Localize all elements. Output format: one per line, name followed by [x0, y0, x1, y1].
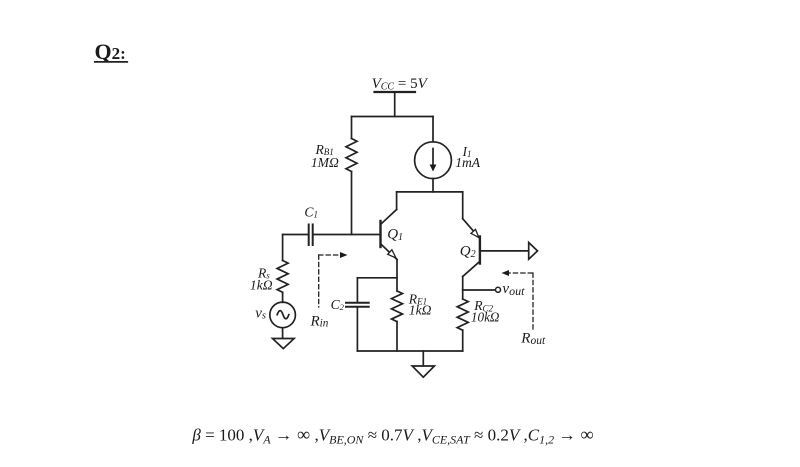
- label vout: [502, 281, 525, 298]
- label 1mA: [455, 155, 481, 170]
- svg-text:10kΩ: 10kΩ: [471, 310, 500, 325]
- svg-text:1MΩ: 1MΩ: [311, 155, 339, 170]
- wire top horizontal: [352, 116, 434, 118]
- wire ground stub: [422, 351, 424, 366]
- wire base Q1 left: [283, 234, 308, 236]
- svg-text:vout: vout: [502, 281, 525, 298]
- resistor Rs: [277, 261, 288, 293]
- wire Q1 emitter down: [396, 260, 398, 292]
- label vs: [255, 305, 266, 321]
- heading Q2:: [95, 39, 126, 64]
- svg-text:1kΩ: 1kΩ: [409, 303, 432, 318]
- label Rs: [257, 265, 270, 280]
- port triangle: [529, 243, 538, 260]
- Rout dashed arrow: [506, 273, 533, 329]
- wire RB1 top: [351, 117, 353, 139]
- svg-text:C2: C2: [331, 297, 345, 312]
- formula line: [191, 425, 593, 447]
- label 1MΩ: [311, 155, 339, 170]
- svg-text:β = 100 ,VA → ∞ ,VBE,ON ≈ 0.7V: β = 100 ,VA → ∞ ,VBE,ON ≈ 0.7V ,VCE,SAT …: [191, 425, 593, 447]
- svg-text:Rout: Rout: [520, 330, 546, 347]
- label C2: [331, 297, 345, 312]
- svg-text:1mA: 1mA: [455, 155, 481, 170]
- wire VCC bar down: [394, 92, 396, 117]
- wire RC2 bottom: [462, 330, 464, 351]
- label RB1: [314, 142, 333, 157]
- label Rout: [520, 330, 546, 347]
- resistor RC2: [457, 299, 468, 330]
- label RC2: [473, 298, 493, 313]
- svg-text:Q2: Q2: [460, 244, 476, 261]
- label 1kΩ (RE1): [409, 303, 432, 318]
- wire RB1 bottom: [351, 172, 353, 235]
- wire Rs to vs: [282, 292, 284, 302]
- transistor Q1: [381, 192, 398, 260]
- wire C2 bottom: [356, 307, 358, 351]
- heading underline: [95, 61, 127, 63]
- ground (vs): [273, 339, 295, 349]
- wire RE1 bottom: [396, 322, 398, 352]
- svg-text:VCC = 5V: VCC = 5V: [372, 76, 429, 93]
- wire I1 top: [432, 117, 434, 142]
- label 10kΩ: [471, 310, 500, 325]
- label Q1: [387, 227, 403, 244]
- svg-text:vs: vs: [255, 305, 266, 321]
- wire I1 bottom: [432, 179, 434, 192]
- wire vout: [463, 289, 495, 291]
- VCC supply bar: [375, 91, 416, 93]
- wire bottom rail: [357, 350, 462, 352]
- svg-text:Rin: Rin: [310, 313, 329, 329]
- ground (bottom): [412, 366, 434, 377]
- source vs: [270, 302, 296, 328]
- current source I1: [415, 142, 452, 179]
- label RE1: [408, 291, 427, 306]
- wire vs to ground: [282, 328, 284, 338]
- capacitor C1: [309, 225, 313, 246]
- svg-text:1kΩ: 1kΩ: [250, 277, 273, 292]
- wire inner rail: [397, 191, 463, 193]
- wire Q2 base: [480, 250, 529, 252]
- wire C2 top: [356, 278, 358, 302]
- svg-text:Q2:: Q2:: [95, 39, 126, 64]
- wire Rs top: [282, 235, 284, 261]
- label 1kΩ (Rs): [250, 277, 273, 292]
- label VCC = 5V: [372, 76, 429, 93]
- label Q2: [460, 244, 476, 261]
- label C1: [304, 205, 318, 220]
- label Rin: [310, 313, 329, 329]
- svg-text:Q1: Q1: [387, 227, 403, 244]
- label I1: [462, 144, 472, 159]
- resistor RE1: [392, 291, 403, 322]
- capacitor C2: [346, 303, 369, 307]
- wire base Q1 right: [313, 234, 380, 236]
- svg-text:C1: C1: [304, 205, 318, 220]
- vout terminal: [496, 287, 501, 292]
- transistor Q2: [463, 192, 480, 277]
- wire Q2 collector down: [462, 277, 464, 300]
- resistor RB1: [346, 139, 357, 172]
- Rin dashed arrow: [319, 255, 342, 307]
- wire C2 link: [357, 277, 397, 279]
